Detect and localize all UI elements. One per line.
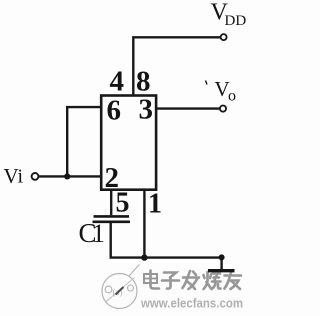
svg-text:www.elecfans.com: www.elecfans.com (140, 296, 243, 311)
wire: drop to ground symbol (220, 258, 222, 270)
svg-text:3: 3 (139, 94, 154, 126)
watermark logo circle (102, 265, 140, 309)
wire: Vi input to pin 2 (39, 175, 101, 177)
svg-text:5: 5 (116, 188, 130, 219)
svg-text:V: V (4, 164, 19, 188)
node: input junction dot (64, 173, 70, 179)
ground (208, 269, 235, 272)
wire: VDD rail from pins 4/8 up and right (133, 37, 220, 95)
terminal Vo (220, 106, 226, 112)
svg-text:DD: DD (225, 13, 247, 29)
node: ground junction dot (219, 254, 225, 260)
svg-text:4: 4 (110, 66, 125, 98)
wire: capacitor bottom to ground rail (111, 223, 222, 258)
wire: pin 5 down to capacitor C1 (110, 191, 112, 215)
svg-text:6: 6 (107, 95, 122, 127)
node: pin1/rail junction dot (141, 254, 147, 260)
电 (144, 271, 159, 289)
main circuit (39, 37, 222, 269)
烧 (204, 271, 221, 289)
watermark chinese text 电子发烧友 (144, 271, 241, 290)
capacitor C1 plates (93, 216, 131, 221)
svg-text:i: i (18, 166, 24, 188)
svg-text:o: o (228, 88, 236, 105)
terminal Vi (32, 173, 39, 180)
svg-text:1: 1 (148, 189, 162, 220)
wire: feedback loop pin 6 to input node (67, 107, 101, 176)
terminal VDD (221, 34, 227, 40)
IC body U1 (101, 96, 156, 190)
友 (225, 271, 242, 290)
发 (183, 271, 200, 289)
svg-text:1: 1 (92, 219, 105, 248)
wire: pin 3 output to Vo terminal (157, 107, 220, 109)
wire: pin 1 down to ground rail (143, 191, 145, 258)
子 (162, 273, 179, 289)
